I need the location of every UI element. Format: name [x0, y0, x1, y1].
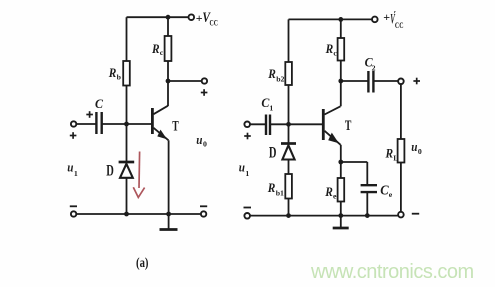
wire emitter down — [340, 145, 342, 162]
label u0 — [196, 132, 207, 149]
terminal input plus — [71, 121, 76, 126]
label minus over bottom-left terminal — [70, 205, 77, 207]
terminal bottom-left right circuit — [244, 213, 250, 219]
transistor T1 collector — [154, 106, 169, 115]
diode D triangle — [120, 164, 133, 178]
label plus under output terminal — [201, 89, 208, 96]
diode D cathode bar — [119, 161, 135, 164]
transistor T2 base bar — [322, 109, 325, 140]
svg-text:R: R — [151, 42, 160, 56]
resistor Re — [338, 178, 345, 202]
svg-text:b2: b2 — [276, 74, 284, 83]
wire RL to bottom terminal — [400, 163, 402, 213]
svg-text:R: R — [108, 66, 117, 80]
label Rb — [108, 66, 122, 81]
terminal +Vcc prime — [372, 17, 378, 23]
wire base junction to diode — [126, 124, 128, 162]
node Re rail — [338, 213, 343, 218]
label C1 — [261, 95, 273, 113]
label u1 right — [239, 159, 250, 178]
wire collector junction to C2 — [341, 80, 368, 82]
ground right — [340, 216, 342, 227]
svg-text:CC: CC — [395, 21, 404, 30]
label minus right of terminal — [412, 213, 419, 215]
wire diode to bottom rail — [126, 178, 128, 214]
node top rail Rc junction — [338, 17, 343, 22]
label u1 — [67, 159, 78, 178]
resistor Rb1 — [285, 174, 292, 199]
svg-text:L: L — [393, 153, 398, 162]
wire top rail right — [289, 18, 373, 20]
terminal input right — [244, 122, 250, 128]
svg-text:c: c — [333, 49, 337, 58]
diode D right cathode bar — [281, 142, 296, 145]
node collector output junction — [166, 79, 171, 84]
wire Ce branch down — [366, 162, 368, 184]
svg-text:CC: CC — [210, 18, 218, 27]
label Re — [324, 185, 337, 201]
transistor T2 emitter — [325, 131, 341, 145]
wire top rail left — [127, 16, 189, 18]
svg-text:0: 0 — [203, 140, 207, 149]
wire Rb branch upper — [126, 17, 128, 61]
svg-text:D: D — [269, 145, 277, 162]
svg-text:R: R — [324, 185, 333, 199]
ground — [168, 214, 170, 229]
capacitor C1 — [266, 115, 270, 136]
transistor T2 collector — [325, 106, 341, 114]
wire emitter down — [168, 140, 170, 214]
node diode rail junction — [124, 212, 129, 217]
svg-text:R: R — [385, 146, 394, 160]
wire emitter to Ce branch — [341, 161, 368, 163]
label D right — [269, 145, 277, 162]
wire C2 to output terminal — [373, 80, 398, 82]
transistor T1 emitter arrowhead — [157, 130, 167, 140]
svg-text:u: u — [196, 132, 202, 147]
svg-text:1: 1 — [245, 169, 249, 178]
wire input to C1 — [250, 123, 266, 125]
label Rb2 — [267, 67, 284, 84]
wire diode to Rb1 — [288, 160, 290, 175]
label (a) — [136, 255, 149, 270]
svg-text:b: b — [117, 72, 122, 81]
resistor Rc right — [338, 38, 345, 61]
svg-text:2: 2 — [372, 63, 376, 72]
resistor Rc — [165, 36, 172, 61]
node emitter rail junction — [166, 212, 171, 217]
terminal bottom-right — [201, 211, 206, 216]
label C2 — [365, 54, 376, 72]
wire Ce to rail — [366, 192, 368, 215]
label T right — [345, 118, 352, 134]
wire bottom rail right circuit — [250, 215, 398, 217]
wire input to C — [76, 123, 96, 125]
label RL — [385, 146, 399, 162]
red current arrow — [133, 152, 144, 198]
label minus over bottom-right terminal — [200, 205, 207, 207]
node collector C2 junction — [338, 79, 343, 84]
wire Rb1 to bottom rail — [288, 199, 290, 216]
node base junction right — [286, 122, 291, 127]
svg-text:b1: b1 — [276, 189, 284, 198]
label plus right of output — [413, 78, 420, 85]
wire output tap — [168, 80, 202, 82]
svg-text:u: u — [411, 139, 417, 154]
node emitter junction — [338, 160, 343, 165]
node Rb1 rail — [286, 213, 291, 218]
svg-text:C: C — [95, 96, 103, 111]
capacitor C — [96, 112, 101, 134]
terminal bottom right minus — [398, 212, 404, 218]
terminal output right plus — [398, 79, 404, 85]
resistor RL — [398, 139, 405, 163]
transistor T1 base bar — [151, 108, 154, 134]
terminal +Vcc — [189, 14, 195, 20]
terminal output plus — [202, 78, 207, 83]
wire Rc to collector — [167, 61, 169, 106]
svg-text:e: e — [333, 191, 337, 200]
label D — [106, 162, 114, 179]
svg-text:e: e — [389, 190, 393, 199]
label u0 right — [411, 139, 422, 156]
wire output terminal down to RL — [400, 84, 402, 139]
wire bottom rail — [76, 213, 201, 215]
svg-text:T: T — [172, 118, 179, 134]
svg-text:www.cntronics.com: www.cntronics.com — [310, 261, 474, 283]
label Ce — [380, 182, 393, 199]
label C — [95, 96, 103, 111]
transistor T2 emitter arrowhead — [328, 133, 339, 144]
resistor Rb — [123, 61, 130, 86]
diode D right triangle — [282, 145, 294, 159]
svg-text:c: c — [160, 48, 164, 57]
label plus under right input terminal — [244, 133, 251, 140]
terminal bottom-left — [71, 211, 76, 216]
label Rc — [151, 42, 164, 57]
wire Rb2 branch upper — [288, 19, 290, 62]
wire Rc top to rail — [340, 19, 342, 38]
svg-text:R: R — [267, 67, 276, 81]
capacitor Ce — [361, 185, 377, 192]
transistor T1 emitter — [154, 128, 169, 141]
resistor Rb2 — [285, 62, 292, 85]
svg-text:1: 1 — [269, 104, 273, 113]
svg-text:′: ′ — [394, 9, 397, 19]
label plus above wire — [86, 111, 93, 118]
svg-text:R: R — [325, 42, 334, 56]
label +Vcc prime — [383, 9, 403, 30]
wire C to base — [102, 123, 151, 125]
svg-text:D: D — [106, 162, 114, 179]
label T — [172, 118, 179, 134]
wire C1 to base — [270, 123, 322, 125]
node base junction — [124, 122, 129, 127]
label Rb1 — [267, 181, 284, 197]
label plus under input terminal — [70, 132, 77, 139]
svg-text:(a): (a) — [136, 255, 149, 270]
svg-text:u: u — [239, 159, 245, 174]
wire Rb branch lower — [126, 86, 128, 125]
wire Re to rail — [340, 202, 342, 216]
svg-text:u: u — [67, 159, 73, 174]
label Rc right — [325, 42, 338, 58]
svg-text:T: T — [345, 118, 352, 134]
label +Vcc — [196, 10, 218, 27]
wire collector up — [340, 61, 342, 107]
label minus over terminal — [244, 207, 252, 209]
svg-text:0: 0 — [418, 147, 422, 156]
capacitor C2 — [368, 71, 373, 93]
wire Rb2 to diode — [288, 85, 290, 143]
svg-text:1: 1 — [74, 169, 78, 178]
wire Rc branch upper — [167, 17, 169, 36]
node top-rail Rc junction — [166, 15, 171, 20]
wire emitter to Re — [340, 162, 342, 178]
watermark — [310, 261, 474, 283]
svg-text:R: R — [267, 181, 276, 195]
node Ce rail — [365, 213, 370, 218]
